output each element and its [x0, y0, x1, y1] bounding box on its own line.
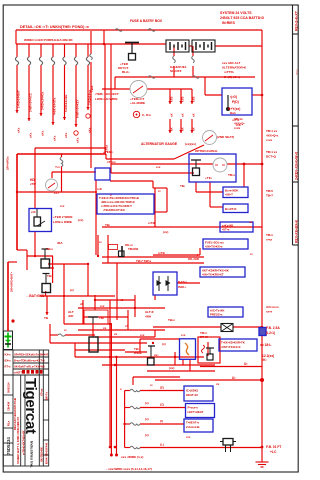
svg-text:2/0▪AWGx: 2/0▪AWGx: [6, 156, 10, 170]
svg-text:U▪: U▪: [232, 376, 236, 380]
svg-text:TB▪: TB▪: [47, 274, 52, 278]
svg-text:REV▪2▪K▪XT: REV▪2▪K▪XT: [295, 10, 299, 31]
svg-text:TB▪x: TB▪x: [46, 247, 53, 251]
svg-text:←xxx▪WIRE xxxx (5,11,14,16,17): ←xxx▪WIRE xxxx (5,11,14,16,17): [105, 467, 152, 471]
svg-text:REV▪X▪KT▪BX▪KXW▪TX▪B: REV▪X▪KT▪BX▪KXW▪TX▪B: [13, 398, 17, 430]
svg-text:TB▪7 SW▪x: TB▪7 SW▪x: [136, 259, 151, 263]
svg-text:▪XT▪x: ▪XT▪x: [222, 228, 230, 232]
svg-text:xTB: xTB: [181, 97, 185, 102]
svg-text:xxx AM▪ ALT: xxx AM▪ ALT: [222, 61, 240, 65]
svg-text:xTW: xTW: [30, 182, 36, 186]
svg-text:RT▪x: RT▪x: [5, 365, 12, 369]
svg-text:CL▪: CL▪: [54, 191, 59, 195]
svg-text:2.2▪Axx▪B: 2.2▪Axx▪B: [186, 425, 199, 429]
svg-text:WIRE: WIRE: [134, 351, 142, 355]
svg-text:+TE▪: +TE▪: [205, 176, 212, 180]
svg-text:TB▪1x: TB▪1x: [234, 117, 243, 121]
svg-text:xx▪: xx▪: [154, 353, 158, 357]
svg-text:x▪x: x▪x: [100, 304, 105, 308]
svg-text:5▪RD▪14▪xBx: 5▪RD▪14▪xBx: [64, 94, 68, 112]
svg-text:TB▪: TB▪: [105, 223, 110, 227]
svg-text:x▪TB: x▪TB: [148, 221, 156, 225]
svg-text:OPTED▪CABLE: OPTED▪CABLE: [195, 149, 217, 153]
svg-text:2/0▪AWG▪BAT▪: 2/0▪AWG▪BAT▪: [10, 272, 14, 292]
svg-text:▪ED: ▪ED: [68, 314, 74, 318]
svg-text:x▪x: x▪x: [181, 333, 186, 337]
svg-text:xTB: xTB: [170, 97, 174, 102]
svg-text:ALTERNATOR▪K: ALTERNATOR▪K: [222, 66, 247, 70]
svg-text:B▪xx▪TDKxWx▪xx▪KXT▪X: B▪xx▪TDKxWx▪xx▪KXT▪X: [14, 359, 45, 363]
svg-text:1▪RD▪14▪BAT: 1▪RD▪14▪BAT: [17, 90, 21, 108]
svg-text:TB▪: TB▪: [180, 184, 185, 188]
svg-text:SYSTEM 24 VOLTS: SYSTEM 24 VOLTS: [220, 11, 252, 15]
svg-text:ISOL▪: ISOL▪: [178, 285, 186, 289]
svg-text:TB▪5: TB▪5: [266, 189, 273, 193]
svg-text:▪xTTD▪: ▪xTTD▪: [224, 70, 234, 74]
svg-text:x▪x: x▪x: [60, 204, 65, 208]
svg-text:xTB: xTB: [192, 97, 196, 102]
svg-text:ALT▪F: ALT▪F: [145, 310, 154, 314]
svg-text:A/C▪xx▪x: A/C▪xx▪x: [266, 305, 279, 309]
svg-text:x▪TB: x▪TB: [158, 251, 166, 255]
svg-text:DETAIL ▪OK ▪▪T▪ UNKN(THE▪ POND: DETAIL ▪OK ▪▪T▪ UNKN(THE▪ POND) ▪x: [20, 25, 90, 29]
svg-text:TB▪1: TB▪1: [90, 85, 94, 92]
svg-text:30A: 30A: [57, 241, 63, 245]
svg-text:Y▪x: Y▪x: [55, 165, 60, 169]
svg-text:TM▪SW: TM▪SW: [128, 247, 138, 251]
svg-text:4XX▪Q▪x: 4XX▪Q▪x: [266, 134, 278, 138]
svg-text:xx: xx: [249, 220, 253, 224]
svg-text:▪K▪: ▪K▪: [262, 358, 267, 362]
svg-text:TB▪1 xx: TB▪1 xx: [266, 129, 278, 133]
svg-text:4▪BK▪14▪STx: 4▪BK▪14▪STx: [53, 97, 57, 115]
svg-text:xKx: xKx: [88, 127, 92, 133]
svg-text:x▪TR▪K▪XKT▪BX▪XK: x▪TR▪K▪XKT▪BX▪XK: [21, 430, 25, 455]
svg-text:▪XK▪TX▪KRX▪XT: ▪XK▪TX▪KRX▪XT: [202, 273, 224, 277]
svg-text:XK▪TBX▪RK: XK▪TBX▪RK: [40, 447, 44, 462]
svg-text:HEAT▪10: HEAT▪10: [186, 393, 198, 397]
svg-text:x▪: x▪: [99, 240, 102, 244]
svg-text:XK▪BxKT▪xRLx▪TKX▪WX: XK▪BxKT▪xRLx▪TKX▪WX: [14, 365, 45, 369]
svg-text:TB▪x: TB▪x: [228, 173, 235, 177]
svg-text:Bx▪XT▪K: Bx▪XT▪K: [225, 207, 237, 211]
svg-text:TB▪7: TB▪7: [266, 194, 273, 198]
svg-text:FUSE & BATRY BOX: FUSE & BATRY BOX: [130, 19, 163, 23]
svg-text:OIL▪SW: OIL▪SW: [188, 257, 199, 261]
svg-text:(x): (x): [70, 288, 74, 292]
svg-text:U▪: U▪: [244, 362, 248, 366]
svg-text:B+(B) (C▪x): B+(B) (C▪x): [224, 75, 240, 79]
svg-text:T▪HEAT▪x: T▪HEAT▪x: [186, 421, 199, 425]
svg-text:TB▪1 xx: TB▪1 xx: [266, 150, 278, 154]
svg-text:xTB▪x: xTB▪x: [107, 160, 116, 164]
svg-text:x▪x: x▪x: [186, 435, 191, 439]
svg-text:T▪XK▪XD▪KXR▪TK: T▪XK▪XD▪KXR▪TK: [221, 341, 246, 345]
svg-text:F.B. 01 FT: F.B. 01 FT: [266, 445, 281, 449]
svg-text:(xx)(xx): (xx)(xx): [185, 142, 196, 146]
svg-text:←BAT▪GND: ←BAT▪GND: [26, 294, 45, 298]
svg-text:Tigercat: Tigercat: [22, 378, 39, 434]
svg-text:xx: xx: [216, 382, 220, 386]
svg-text:LOW▪▪LE▪WIRE: LOW▪▪LE▪WIRE: [95, 97, 118, 101]
svg-text:(L): (L): [160, 443, 164, 447]
svg-text:xKx: xKx: [29, 132, 33, 138]
svg-text:SH▪OFF: SH▪OFF: [170, 69, 182, 73]
svg-text:▪XK▪TX▪KX▪x: ▪XK▪TX▪KX▪x: [205, 245, 223, 249]
svg-text:xKx: xKx: [53, 135, 57, 141]
svg-text:(xx): (xx): [163, 230, 168, 234]
svg-text:CB▪KW: CB▪KW: [7, 401, 11, 411]
svg-text:ET▪W: ET▪W: [200, 335, 208, 339]
svg-text:xx: xx: [103, 326, 107, 330]
svg-text:REV▪XK▪BX▪K: REV▪XK▪BX▪K: [295, 219, 299, 243]
svg-text:05/02/14: 05/02/14: [7, 382, 11, 393]
svg-text:BCT▪Q: BCT▪Q: [266, 155, 276, 159]
svg-text:C, D▪x: C, D▪x: [142, 113, 151, 117]
svg-text:TB▪x: TB▪x: [266, 233, 273, 237]
svg-text:rev.x: rev.x: [294, 69, 298, 75]
svg-text:BX▪x: BX▪x: [5, 359, 12, 363]
svg-text:▪XK▪T: ▪XK▪T: [225, 193, 233, 197]
svg-text:Industries Inc.: Industries Inc.: [30, 441, 35, 468]
svg-text:▪TER▪ LEC▪▪ECT: ▪TER▪ LEC▪▪ECT: [95, 92, 119, 96]
svg-text:P▪xxx▪x: P▪xxx▪x: [188, 406, 199, 410]
svg-text:▪TB▪KRX▪XT▪KX: ▪TB▪KRX▪XT▪KX: [103, 208, 125, 212]
svg-text:IC▪(XDK): IC▪(XDK): [186, 389, 198, 393]
svg-text:(2ND SEAT): (2ND SEAT): [217, 135, 234, 139]
svg-text:x▪xx: x▪xx: [266, 238, 273, 242]
svg-text:x▪x: x▪x: [140, 333, 145, 337]
svg-text:XR▪PBX▪SEKxKxTx▪BKX▪R: XR▪PBX▪SEKxKxTx▪BKX▪R: [14, 353, 48, 357]
svg-text:Bat▪: Bat▪: [230, 111, 236, 115]
svg-text:xx▪x: xx▪x: [266, 310, 273, 314]
svg-text:x▪: x▪: [158, 189, 161, 193]
svg-text:xx 18▪L: xx 18▪L: [260, 343, 271, 347]
svg-text:(xx): (xx): [78, 218, 83, 222]
svg-text:2▪BOLT 925 CCA BATTD▪D: 2▪BOLT 925 CCA BATTD▪D: [220, 16, 265, 20]
svg-text:xKx: xKx: [41, 130, 45, 136]
svg-text:75D5234: 75D5234: [6, 437, 11, 455]
svg-text:(x): (x): [145, 433, 149, 437]
svg-text:xKx: xKx: [17, 127, 21, 133]
svg-text:BAT▪x: BAT▪x: [178, 280, 187, 284]
svg-text:RLx: RLx: [7, 420, 11, 426]
svg-text:IN▪RIES: IN▪RIES: [222, 21, 236, 25]
svg-text:TB▪x: TB▪x: [168, 318, 175, 322]
svg-text:xTBx: xTBx: [105, 145, 109, 152]
svg-text:4XX▪Q▪: 4XX▪Q▪: [234, 122, 244, 126]
svg-text:xT: xT: [125, 324, 129, 328]
svg-text:x▪xx: x▪xx: [234, 126, 241, 130]
svg-text:3▪RD▪x14▪IGx: 3▪RD▪x14▪IGx: [41, 91, 45, 110]
svg-text:P(D): P(D): [232, 100, 239, 104]
svg-text:PRESS▪x: PRESS▪x: [210, 313, 223, 317]
svg-text:+AL▪WIRE: +AL▪WIRE: [130, 101, 145, 105]
svg-text:BK▪Tx: BK▪Tx: [45, 392, 49, 400]
svg-text:XT▪xx: XT▪xx: [40, 388, 44, 396]
svg-text:(x): (x): [145, 417, 149, 421]
svg-text:x▪: x▪: [250, 252, 253, 256]
svg-text:BLA▪: BLA▪: [122, 70, 129, 74]
svg-text:x▪: x▪: [150, 383, 153, 387]
svg-text:xxx ▪WIRE (1,x): xxx ▪WIRE (1,x): [121, 455, 143, 459]
svg-text:TB▪: TB▪: [99, 316, 104, 320]
svg-text:BX▪K▪TR▪KWX▪B: BX▪K▪TR▪KWX▪B: [45, 443, 49, 464]
svg-text:x▪K: x▪K: [97, 187, 103, 191]
svg-text:▪WH: ▪WH: [145, 315, 152, 319]
svg-text:WIRE# LI▪ED PURPLE▪EA▪ON▪XK: WIRE# LI▪ED PURPLE▪EA▪ON▪XK: [24, 38, 74, 42]
svg-text:6▪WH▪14▪KEY: 6▪WH▪14▪KEY: [76, 99, 80, 118]
svg-text:+LC: +LC: [270, 450, 277, 454]
svg-text:▪XKT▪TX▪KX▪X: ▪XKT▪TX▪KX▪X: [221, 345, 241, 349]
svg-text:xKx: xKx: [76, 137, 80, 143]
svg-text:xx: xx: [114, 332, 118, 336]
svg-text:LOW▪x WIRE: LOW▪x WIRE: [53, 220, 72, 224]
svg-text:(C): (C): [160, 403, 164, 407]
svg-text:(I): (I): [160, 419, 163, 423]
svg-text:(x): (x): [145, 401, 149, 405]
svg-text:x▪x: x▪x: [156, 165, 161, 169]
svg-text:LEFT▪HEAT: LEFT▪HEAT: [188, 410, 204, 414]
svg-text:(xx): (xx): [169, 366, 174, 370]
svg-text:(L2▪1): (L2▪1): [266, 331, 275, 335]
svg-text:2▪WH▪14▪ACC: 2▪WH▪14▪ACC: [29, 92, 33, 112]
svg-text:(x): (x): [162, 342, 166, 346]
svg-text:+TER 2 WIRE: +TER 2 WIRE: [53, 215, 73, 219]
svg-text:2▪REV▪XX▪K▪W▪X: 2▪REV▪XX▪K▪W▪X: [295, 151, 299, 180]
svg-text:x2: x2: [120, 298, 124, 302]
svg-text:xKx: xKx: [64, 132, 68, 138]
svg-text:KX▪x: KX▪x: [5, 353, 12, 357]
svg-text:x▪xx: x▪xx: [266, 138, 273, 142]
svg-text:(E): (E): [160, 386, 164, 390]
svg-text:ALTERNATOR GAUGE: ALTERNATOR GAUGE: [141, 142, 178, 146]
svg-text:x▪: x▪: [64, 328, 67, 332]
svg-text:F.B. 2.5A: F.B. 2.5A: [266, 326, 280, 330]
svg-text:▪(▪G): ▪(▪G): [230, 95, 237, 99]
